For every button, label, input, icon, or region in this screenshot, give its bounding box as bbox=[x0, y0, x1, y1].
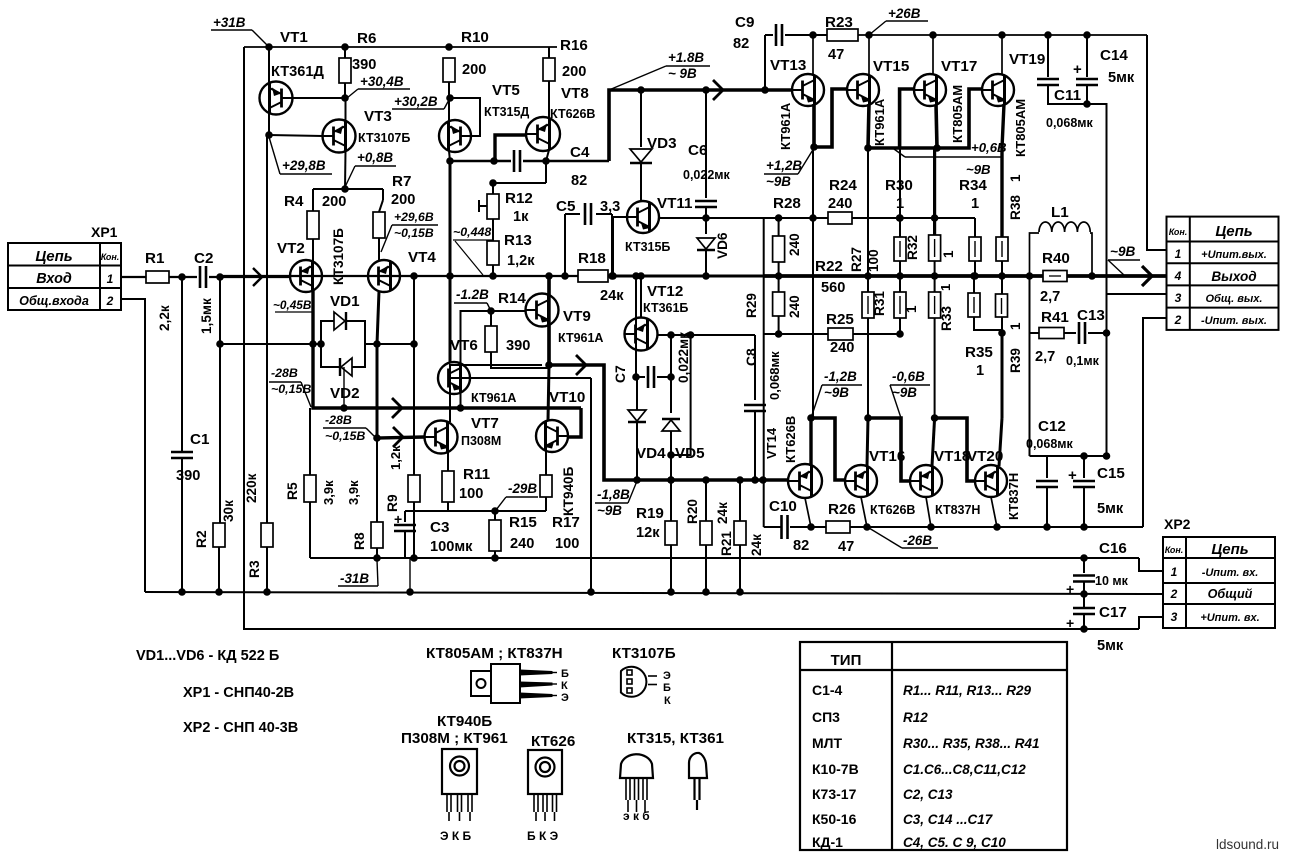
R34 corner from y=218 bbox=[974, 218, 976, 237]
svg-text:390: 390 bbox=[506, 338, 530, 354]
svg-text:КТ961А: КТ961А bbox=[872, 98, 887, 146]
VT16 bbox=[845, 465, 877, 497]
svg-text:R2: R2 bbox=[194, 530, 209, 548]
capacitor C3 bbox=[405, 510, 448, 512]
svg-text:C1: C1 bbox=[190, 431, 210, 448]
svg-text:-0,6В: -0,6В bbox=[892, 369, 925, 384]
svg-text:Общ. вых.: Общ. вых. bbox=[1206, 293, 1263, 305]
VT12 bbox=[625, 318, 658, 351]
resistor R31 bbox=[867, 276, 869, 292]
svg-text:R15: R15 bbox=[509, 514, 537, 531]
svg-text:VT14: VT14 bbox=[764, 427, 779, 459]
svg-text:R4: R4 bbox=[284, 193, 304, 210]
svg-text:КТ626В: КТ626В bbox=[870, 503, 915, 517]
svg-text:К: К bbox=[561, 680, 568, 692]
svg-text:0,068мк: 0,068мк bbox=[1026, 437, 1074, 451]
VT14 collector thick up to x=813 bbox=[809, 418, 812, 466]
thick riser x=609 and +1.8V line y=90 bbox=[609, 90, 793, 161]
svg-text:VT13: VT13 bbox=[770, 57, 806, 74]
-31V rail y=558 bbox=[310, 557, 1139, 559]
label +0.6V ~9V bbox=[894, 149, 905, 157]
y=334 line with R25 bbox=[764, 333, 828, 335]
svg-text:Б: Б bbox=[561, 668, 569, 680]
to output table pin3 bbox=[1107, 294, 1167, 333]
svg-text:КТ626В: КТ626В bbox=[783, 416, 798, 463]
wire C2 to VT2 base, input arrow bbox=[209, 276, 291, 278]
R5 column bbox=[309, 408, 311, 475]
wire C1 branch bbox=[181, 277, 183, 452]
svg-text:1к: 1к bbox=[513, 209, 529, 225]
VT4 bbox=[368, 260, 400, 292]
svg-text:~ 9В: ~ 9В bbox=[668, 66, 697, 81]
resistor R33 bbox=[934, 276, 936, 292]
diode bridge VD1/VD2 frame bbox=[321, 321, 365, 344]
VT12 emitter to x=671 bbox=[658, 334, 671, 336]
VT12 emitter line right to C8 bbox=[671, 334, 755, 336]
thick zigzag VT14->VT16 base bbox=[811, 418, 845, 480]
+26V rail y=35 bbox=[858, 34, 1147, 36]
svg-text:VT12: VT12 bbox=[647, 283, 683, 300]
svg-text:C8: C8 bbox=[744, 348, 759, 366]
svg-text:R32: R32 bbox=[905, 235, 920, 260]
VT9 bbox=[526, 294, 559, 327]
svg-text:VD1: VD1 bbox=[330, 293, 360, 310]
VT10 bbox=[536, 420, 568, 452]
package KT361 shape bbox=[689, 753, 707, 810]
svg-text:C15: C15 bbox=[1097, 465, 1125, 482]
resistor R2 bbox=[213, 523, 225, 547]
svg-text:C6: C6 bbox=[688, 142, 707, 159]
base line to VT7 (thick) y=438 bbox=[377, 437, 424, 438]
C16/C17 and XP2 feed lines bbox=[1139, 558, 1163, 571]
svg-text:1,2к: 1,2к bbox=[388, 445, 403, 470]
svg-text:24к: 24к bbox=[600, 288, 624, 304]
thick wire VT8 base bbox=[495, 135, 526, 161]
resistor R41 bbox=[1039, 328, 1064, 339]
svg-text:Общий: Общий bbox=[1208, 587, 1253, 601]
svg-text:ХР2 - СНП 40-3В: ХР2 - СНП 40-3В bbox=[183, 720, 298, 736]
svg-text:1: 1 bbox=[938, 284, 953, 291]
svg-text:ldsound.ru: ldsound.ru bbox=[1216, 837, 1279, 852]
capacitor C5 bbox=[584, 203, 587, 225]
svg-text:К73-17: К73-17 bbox=[812, 786, 857, 802]
+31V left vertical down bbox=[243, 47, 245, 594]
svg-text:КТ940Б: КТ940Б bbox=[437, 713, 492, 730]
svg-text:R12: R12 bbox=[505, 190, 533, 207]
svg-text:R22: R22 bbox=[815, 258, 843, 275]
svg-text:5мк: 5мк bbox=[1097, 501, 1124, 517]
svg-text:3,9к: 3,9к bbox=[346, 480, 361, 505]
columns above main line bbox=[812, 147, 814, 218]
svg-text:VT5: VT5 bbox=[492, 82, 520, 99]
svg-text:2: 2 bbox=[1174, 313, 1182, 327]
svg-text:КТ315Б: КТ315Б bbox=[625, 240, 670, 254]
svg-text:100: 100 bbox=[459, 486, 483, 502]
svg-text:Цепь: Цепь bbox=[1215, 223, 1252, 240]
svg-text:3,9к: 3,9к bbox=[321, 480, 336, 505]
VT6 bbox=[438, 362, 470, 394]
svg-text:R5: R5 bbox=[285, 482, 300, 500]
svg-text:C14: C14 bbox=[1100, 47, 1128, 64]
svg-text:0,068мк: 0,068мк bbox=[1046, 116, 1094, 130]
svg-text:R23: R23 bbox=[825, 14, 853, 31]
R4-R7 bias line y=189 bbox=[313, 188, 383, 190]
VT19 emitter down bbox=[1002, 104, 1004, 237]
svg-text:200: 200 bbox=[462, 62, 486, 78]
capacitor C6 bbox=[695, 200, 717, 203]
VT7 bbox=[425, 421, 458, 454]
svg-text:Б: Б bbox=[663, 682, 671, 694]
resistor R26 bbox=[826, 521, 850, 533]
svg-text:240: 240 bbox=[787, 233, 802, 256]
resistor R6 bbox=[339, 58, 351, 83]
svg-text:R41: R41 bbox=[1041, 309, 1069, 326]
VT16 emitter up bbox=[867, 418, 868, 466]
svg-text:~9В: ~9В bbox=[824, 385, 849, 400]
svg-text:+31В: +31В bbox=[213, 15, 246, 30]
svg-text:-Uпит. вх.: -Uпит. вх. bbox=[1202, 567, 1259, 579]
svg-text:Б К Э: Б К Э bbox=[527, 829, 559, 843]
svg-text:ХР1 - СНП40-2В: ХР1 - СНП40-2В bbox=[183, 685, 294, 701]
VT20 bbox=[975, 465, 1007, 497]
VT14 bbox=[788, 464, 822, 498]
svg-text:VT4: VT4 bbox=[408, 249, 436, 266]
VT10 emitter to R17 bbox=[545, 451, 547, 475]
VT3 bbox=[323, 120, 356, 153]
svg-text:VT2: VT2 bbox=[277, 240, 305, 257]
ground bus y=592 bbox=[145, 592, 1163, 594]
capacitor C10 bbox=[780, 515, 783, 539]
svg-text:VT18: VT18 bbox=[934, 448, 970, 465]
svg-text:1: 1 bbox=[1175, 247, 1182, 261]
svg-text:+: + bbox=[394, 511, 402, 527]
svg-text:2,2к: 2,2к bbox=[157, 305, 172, 331]
svg-text:VT9: VT9 bbox=[563, 308, 591, 325]
transistor VT15 bbox=[868, 35, 870, 75]
transistor VT5 KT315D bbox=[448, 98, 450, 121]
resistor R32 bbox=[933, 148, 936, 235]
svg-text:+29,8В: +29,8В bbox=[282, 158, 326, 173]
wire XP1 pin1 to R1 bbox=[121, 276, 146, 278]
diode VD2 bbox=[341, 358, 352, 376]
svg-text:+30,2В: +30,2В bbox=[394, 94, 438, 109]
svg-text:VT19: VT19 bbox=[1009, 51, 1045, 68]
VT1 bbox=[260, 82, 293, 115]
svg-text:R39: R39 bbox=[1008, 348, 1023, 373]
VT13 bbox=[792, 74, 824, 106]
svg-text:1: 1 bbox=[941, 250, 956, 258]
svg-text:+: + bbox=[1073, 61, 1082, 78]
svg-text:КТ3107Б: КТ3107Б bbox=[612, 645, 676, 662]
svg-text:-1,8В: -1,8В bbox=[597, 487, 630, 502]
svg-text:C12: C12 bbox=[1038, 418, 1066, 435]
vertical x=413 from main line to R9 bbox=[413, 276, 415, 558]
svg-text:C13: C13 bbox=[1077, 307, 1105, 324]
VT8 bbox=[526, 117, 560, 151]
resistor R9 bbox=[408, 475, 420, 502]
thick zigzag VT18->VT20 base bbox=[935, 418, 975, 481]
svg-text:С1-4: С1-4 bbox=[812, 682, 843, 698]
-26V rail y=527 bbox=[764, 526, 782, 528]
line y=161 with C4 bbox=[446, 157, 454, 165]
svg-text:L1: L1 bbox=[1051, 204, 1069, 221]
svg-text:2,7: 2,7 bbox=[1035, 349, 1055, 365]
svg-text:200: 200 bbox=[562, 64, 586, 80]
svg-text:~9В: ~9В bbox=[597, 503, 622, 518]
VT19 bbox=[982, 74, 1014, 106]
resistor R1 bbox=[146, 271, 169, 283]
svg-text:R1: R1 bbox=[145, 250, 165, 267]
resistor R14 bbox=[485, 326, 497, 352]
emitter bus y=148 VT15->VT17->VT19 bbox=[868, 104, 869, 148]
svg-text:VT7: VT7 bbox=[471, 415, 499, 432]
transistor VT3 KT3107B bbox=[345, 98, 347, 121]
svg-text:-29В: -29В bbox=[508, 481, 537, 496]
capacitor C15 bbox=[1083, 456, 1085, 478]
svg-text:КТ361Б: КТ361Б bbox=[643, 301, 688, 315]
svg-text:1: 1 bbox=[1008, 322, 1023, 330]
svg-text:3: 3 bbox=[1175, 291, 1182, 305]
VT18 bbox=[910, 465, 942, 497]
svg-text:C2: C2 bbox=[194, 250, 213, 267]
svg-text:R16: R16 bbox=[560, 37, 588, 54]
svg-text:Общ.входа: Общ.входа bbox=[19, 294, 89, 308]
R8 column bbox=[376, 438, 378, 522]
svg-text:VD2: VD2 bbox=[330, 385, 360, 402]
svg-text:КТ805АМ ; КТ837Н: КТ805АМ ; КТ837Н bbox=[426, 645, 563, 662]
svg-text:C11: C11 bbox=[1054, 87, 1082, 104]
svg-text:+Uпит. вх.: +Uпит. вх. bbox=[1200, 612, 1259, 624]
svg-text:1,2к: 1,2к bbox=[507, 253, 535, 269]
svg-text:~0,15В: ~0,15В bbox=[325, 429, 365, 443]
svg-text:82: 82 bbox=[571, 173, 587, 189]
transistor VT9 KT961A bbox=[491, 310, 526, 312]
svg-text:+29,6В: +29,6В bbox=[394, 210, 434, 224]
svg-text:К50-16: К50-16 bbox=[812, 811, 857, 827]
VD3 column bbox=[637, 86, 645, 94]
svg-text:КТ940Б: КТ940Б bbox=[561, 466, 576, 516]
capacitor C14 bbox=[1086, 35, 1088, 77]
svg-text:5мк: 5мк bbox=[1097, 638, 1124, 654]
svg-text:2: 2 bbox=[1170, 587, 1178, 601]
svg-text:1: 1 bbox=[904, 305, 919, 313]
svg-text:C10: C10 bbox=[769, 498, 797, 515]
svg-text:R24: R24 bbox=[829, 177, 857, 194]
svg-text:КТ805АМ: КТ805АМ bbox=[1013, 99, 1028, 157]
transistor VT10 KT940B bbox=[568, 408, 581, 437]
VT15 bbox=[847, 74, 879, 106]
svg-text:R14: R14 bbox=[498, 290, 526, 307]
svg-text:Цепь: Цепь bbox=[35, 248, 72, 265]
capacitor C12 bbox=[1046, 456, 1048, 478]
svg-text:КТ837Н: КТ837Н bbox=[1006, 473, 1021, 520]
wire VT1 base to R6 bottom bbox=[293, 97, 346, 99]
svg-text:К: К bbox=[664, 695, 671, 707]
wire node C2-right down to y344 line bbox=[219, 277, 221, 344]
svg-text:0,022мк: 0,022мк bbox=[676, 332, 691, 383]
svg-text:КТ626: КТ626 bbox=[531, 733, 575, 750]
diode VD5 bbox=[670, 377, 672, 413]
svg-text:+0,8В: +0,8В bbox=[357, 150, 393, 165]
capacitor C11 bbox=[1047, 35, 1049, 77]
svg-text:VD3: VD3 bbox=[647, 135, 677, 152]
svg-text:КТ315Д: КТ315Д bbox=[484, 105, 529, 119]
svg-text:390: 390 bbox=[352, 57, 376, 73]
VT17 bbox=[914, 74, 946, 106]
svg-text:Выход: Выход bbox=[1211, 269, 1256, 284]
resistor R10 bbox=[443, 58, 455, 82]
+31V rail y=47 bbox=[244, 46, 557, 48]
thick VT2 emitter down and feedback line y=408 bbox=[313, 289, 581, 408]
resistor R19 bbox=[667, 476, 675, 484]
VT10 collector thick up bbox=[548, 365, 549, 421]
svg-text:0,068мк: 0,068мк bbox=[767, 351, 782, 400]
svg-text:Э: Э bbox=[663, 670, 671, 682]
VT7 emitter to R11 bbox=[447, 452, 449, 471]
svg-text:R25: R25 bbox=[826, 311, 854, 328]
capacitor C2 bbox=[199, 266, 202, 288]
wire VT1 collector to VT3 base bbox=[269, 135, 323, 136]
wire VT8 collector down + R12 top bbox=[545, 161, 547, 183]
svg-text:10 мк: 10 мк bbox=[1095, 574, 1129, 588]
svg-text:VT6: VT6 bbox=[450, 337, 478, 354]
svg-text:200: 200 bbox=[391, 192, 415, 208]
svg-text:КТ961А: КТ961А bbox=[558, 331, 603, 345]
svg-text:Кон.: Кон. bbox=[1165, 545, 1184, 555]
svg-text:1: 1 bbox=[107, 272, 114, 286]
resistor R21 bbox=[736, 476, 744, 484]
svg-text:R9: R9 bbox=[385, 494, 400, 512]
svg-text:R3: R3 bbox=[247, 560, 262, 578]
svg-text:240: 240 bbox=[830, 340, 854, 356]
svg-text:R18: R18 bbox=[578, 250, 606, 267]
svg-text:C17: C17 bbox=[1099, 604, 1127, 621]
svg-text:+: + bbox=[1066, 581, 1074, 597]
svg-text:~9В: ~9В bbox=[1110, 244, 1135, 259]
svg-text:VD1...VD6 - КД 522 Б: VD1...VD6 - КД 522 Б bbox=[136, 648, 279, 664]
VT13 emitter zigzag to VT15 base bbox=[814, 89, 847, 147]
svg-text:R13: R13 bbox=[504, 232, 532, 249]
svg-text:+1,2В: +1,2В bbox=[766, 158, 802, 173]
transistor VT17 bbox=[932, 35, 934, 74]
svg-text:R21: R21 bbox=[719, 531, 734, 556]
svg-text:VD6: VD6 bbox=[715, 232, 730, 259]
transistor VT6 KT961A bbox=[461, 311, 492, 364]
resistor R29b bbox=[778, 276, 780, 292]
diode VD4 bbox=[636, 377, 638, 410]
svg-text:R19: R19 bbox=[636, 505, 664, 522]
svg-text:Э К Б: Э К Б bbox=[440, 829, 472, 843]
vertical x=450 thick from 161 to VT6 bbox=[449, 161, 452, 362]
svg-text:-28В: -28В bbox=[271, 366, 298, 380]
svg-text:1,5мк: 1,5мк bbox=[199, 298, 214, 334]
svg-text:~9В: ~9В bbox=[892, 385, 917, 400]
svg-text:1: 1 bbox=[976, 363, 984, 379]
svg-text:R6: R6 bbox=[357, 30, 376, 47]
svg-text:С7: С7 bbox=[613, 365, 628, 383]
svg-text:э к б: э к б bbox=[623, 809, 650, 823]
svg-text:VT20: VT20 bbox=[967, 448, 1003, 465]
svg-text:+: + bbox=[1066, 615, 1074, 631]
svg-text:ХР2: ХР2 bbox=[1164, 516, 1191, 532]
svg-text:5мк: 5мк bbox=[1108, 70, 1135, 86]
svg-text:-Uпит. вых.: -Uпит. вых. bbox=[1201, 315, 1267, 327]
svg-text:82: 82 bbox=[793, 538, 809, 554]
svg-text:1: 1 bbox=[1008, 174, 1023, 182]
svg-text:200: 200 bbox=[322, 194, 346, 210]
svg-text:+30,4В: +30,4В bbox=[360, 74, 404, 89]
VT6 emitter to feedback line bbox=[460, 392, 462, 408]
svg-text:С3: С3 bbox=[430, 519, 449, 536]
C6 column bbox=[702, 86, 710, 94]
svg-text:С2, С13: С2, С13 bbox=[903, 787, 953, 802]
capacitor C8 bbox=[754, 335, 756, 400]
svg-text:ХР1: ХР1 bbox=[91, 224, 118, 240]
svg-text:R30: R30 bbox=[885, 177, 913, 194]
svg-text:82: 82 bbox=[733, 36, 749, 52]
svg-text:240: 240 bbox=[510, 536, 534, 552]
svg-text:СП3: СП3 bbox=[812, 709, 840, 725]
resistor R39 bbox=[1001, 276, 1003, 294]
transistor VT13 bbox=[812, 35, 814, 75]
svg-text:~9В: ~9В bbox=[766, 174, 791, 189]
VT2 bbox=[290, 260, 322, 292]
resistor R25 bbox=[828, 328, 853, 340]
svg-text:R26: R26 bbox=[828, 501, 856, 518]
svg-text:+Uпит.вых.: +Uпит.вых. bbox=[1201, 249, 1267, 261]
svg-text:240: 240 bbox=[828, 196, 852, 212]
resistor R8 bbox=[371, 522, 383, 548]
svg-text:R30... R35, R38... R41: R30... R35, R38... R41 bbox=[903, 736, 1040, 751]
svg-text:+26В: +26В bbox=[888, 6, 921, 21]
svg-text:~0,45В: ~0,45В bbox=[273, 298, 312, 312]
svg-text:Кон.: Кон. bbox=[101, 252, 120, 262]
svg-text:3,3: 3,3 bbox=[600, 199, 620, 215]
C12/C15 bus bbox=[1106, 333, 1108, 456]
svg-text:R12: R12 bbox=[903, 710, 928, 725]
svg-text:КТ805АМ: КТ805АМ bbox=[950, 85, 965, 143]
svg-text:R20: R20 bbox=[685, 499, 700, 524]
main signal line y=276 bbox=[220, 275, 578, 277]
svg-text:R35: R35 bbox=[965, 344, 993, 361]
VD2 bottom link to -28V node bbox=[343, 367, 345, 408]
svg-text:C5: C5 bbox=[556, 198, 576, 215]
C9 bootstrap bbox=[761, 86, 769, 94]
svg-text:К10-7В: К10-7В bbox=[812, 761, 859, 777]
svg-text:1: 1 bbox=[896, 196, 904, 212]
svg-text:R29: R29 bbox=[744, 293, 759, 318]
svg-text:С1.С6...С8,С11,С12: С1.С6...С8,С11,С12 bbox=[903, 762, 1026, 777]
svg-text:C9: C9 bbox=[735, 14, 754, 31]
wire horizontal y=344 to VD bridge bbox=[220, 343, 321, 345]
+31V lower feed y=629 bbox=[244, 594, 1139, 629]
-26V to output pin2 bbox=[1143, 318, 1166, 527]
svg-text:Э: Э bbox=[561, 692, 569, 704]
emitter bottoms line y=511 and R15 bbox=[448, 510, 546, 512]
C5/R18 parallel bbox=[561, 272, 569, 280]
svg-text:24к: 24к bbox=[749, 534, 764, 556]
svg-text:R10: R10 bbox=[461, 29, 489, 46]
x=763.7 column bbox=[763, 218, 765, 527]
VT12 base from x=636 bbox=[635, 276, 637, 377]
VT2 emitter down to bridge left node bbox=[312, 288, 314, 344]
svg-text:КТ626В: КТ626В bbox=[550, 107, 595, 121]
svg-text:C16: C16 bbox=[1099, 540, 1127, 557]
svg-text:~0,15В: ~0,15В bbox=[394, 226, 434, 240]
resistor R7 bbox=[373, 212, 385, 238]
VT20 emitter column bbox=[1001, 333, 1004, 418]
svg-text:~0,448: ~0,448 bbox=[453, 225, 491, 239]
